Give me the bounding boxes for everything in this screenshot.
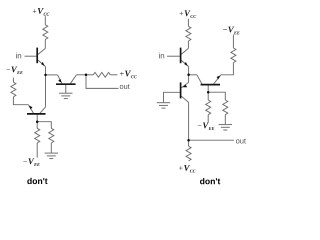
- Q4 emitter lead (arrow out to -Vee): [214, 75, 221, 84]
- wire R4 to ground: [50, 143, 52, 153]
- wire node A down to Q2 collector: [45, 75, 47, 107]
- wire node E right to R9: [208, 92, 225, 100]
- wire node F down to R10: [188, 140, 190, 146]
- wire Q3 emitter down to node D: [188, 67, 190, 75]
- transistor Q2m base bar: [56, 83, 76, 85]
- wire Q2m collector to node C: [76, 74, 86, 76]
- wire node B to R3: [36, 122, 38, 129]
- transistor Q3 base bar: [180, 48, 182, 64]
- wire R5 to +Vcc label: [110, 74, 117, 76]
- Q2 emitter arrow (pointing up-left, out): [29, 106, 33, 110]
- label L4_vcc: [120, 71, 137, 79]
- ground G2: [59, 92, 72, 94]
- Q1 base wire from "in": [25, 55, 37, 57]
- Q1 emitter arrow: [41, 62, 44, 66]
- resistor R6 (collector load to +Vcc): [186, 26, 191, 41]
- wire -Vee label to R2: [12, 78, 14, 83]
- Q2m collector lead: [70, 75, 76, 84]
- label in_R: [159, 53, 164, 59]
- ground G3: [157, 102, 170, 104]
- wire R6 to Q3 collector corner: [187, 41, 189, 48]
- resistor R2 (Q2 emitter resistor to -Vee): [11, 82, 16, 97]
- wire R8 to -Vee label: [207, 115, 209, 123]
- label out_R: [236, 139, 246, 144]
- Q4 emitter arrow (pointing up-right, out): [217, 76, 221, 80]
- wire from +Vcc label down to R1: [44, 16, 46, 25]
- wire node C to R5: [86, 74, 93, 76]
- wire node E to R8: [207, 92, 209, 100]
- transistor Q5 base bar: [180, 82, 182, 98]
- junction dot node F: [187, 139, 190, 142]
- Q4 collector lead: [197, 75, 202, 84]
- Q2 collector lead: [40, 107, 46, 114]
- label R1_vcc: [180, 10, 197, 18]
- Q2m base stem: [65, 84, 67, 93]
- resistor R1 (collector load to +Vcc): [43, 25, 48, 40]
- junction dot node A: [44, 74, 47, 77]
- label R6_vcc: [179, 165, 196, 173]
- junction dot node D: [187, 74, 190, 77]
- Q4 base stem: [207, 85, 209, 93]
- transistor Q2 base bar: [27, 113, 46, 115]
- resistor R10 (pull-up to +Vcc, drawn downward): [186, 146, 191, 161]
- Q3 collector lead: [181, 48, 188, 54]
- Q1 collector lead: [38, 48, 45, 54]
- transistor Q1 base bar: [36, 48, 38, 64]
- wire node A to Q2m emitter: [46, 74, 58, 76]
- label L3_vee: [23, 158, 39, 166]
- resistor R5 (output pull-up to +Vcc): [93, 72, 110, 77]
- ground G1: [45, 152, 58, 154]
- label out_L: [120, 84, 130, 89]
- Q5 emitter arrow (pointing down-left, into base): [183, 85, 188, 88]
- resistor R4 (base bias to ground): [49, 128, 54, 143]
- wire node B right to R4: [37, 122, 51, 129]
- wire from +Vcc label down to R6: [187, 19, 189, 27]
- label dont_R: [200, 178, 220, 184]
- label R4_vee: [198, 122, 214, 130]
- Q5 base wire to ground: [164, 92, 181, 102]
- wire node D down to Q5 emitter: [188, 75, 190, 83]
- label R2_vee: [223, 27, 239, 35]
- resistor R9 (base bias to ground): [223, 100, 228, 115]
- resistor R8 (base bias to -Vee): [206, 100, 211, 115]
- resistor R3 (base bias to -Vee): [35, 128, 40, 143]
- wire Q1 emitter down to node A: [45, 67, 47, 75]
- label L1_vcc: [33, 8, 50, 16]
- ground G4: [219, 124, 232, 126]
- Q1 emitter lead: [38, 60, 46, 67]
- label L2_vee: [6, 66, 22, 74]
- Q3 emitter arrow: [184, 62, 187, 66]
- Q5 collector lead: [181, 96, 188, 102]
- Q2m emitter arrow (pointing down-right, into base): [58, 79, 61, 83]
- junction dot node B: [36, 120, 39, 123]
- Q3 emitter lead: [181, 60, 189, 67]
- wire node F right to out: [189, 139, 234, 141]
- wire R3 to -Vee label: [36, 143, 38, 158]
- wire node C down and right to out: [86, 75, 119, 89]
- wire Q4 emitter up to R7: [221, 63, 234, 75]
- transistor Q4 base bar: [201, 84, 220, 86]
- Q5 emitter lead (PNP, arrow toward base): [181, 82, 188, 87]
- junction dot node C: [85, 74, 88, 77]
- wire node D right to Q4 collector: [189, 74, 197, 76]
- Q2m emitter lead (PNP, arrow toward base): [58, 75, 62, 84]
- Q2 base stem: [36, 114, 38, 122]
- label dont_L: [27, 178, 47, 184]
- wire R2 down and right to Q2 emitter: [13, 97, 28, 105]
- resistor R7 (emitter resistor to -Vee, drawn upward): [231, 48, 236, 63]
- junction dot node E: [207, 91, 210, 94]
- wire R7 to -Vee label: [232, 35, 234, 48]
- wire R1 to Q1 collector corner: [44, 40, 46, 49]
- wire R9 to ground: [224, 115, 226, 125]
- wire Q5 collector down to node F: [188, 102, 190, 140]
- label in_L: [16, 53, 21, 59]
- Q3 base wire from "in": [167, 55, 180, 57]
- Q2 emitter lead: [28, 105, 33, 114]
